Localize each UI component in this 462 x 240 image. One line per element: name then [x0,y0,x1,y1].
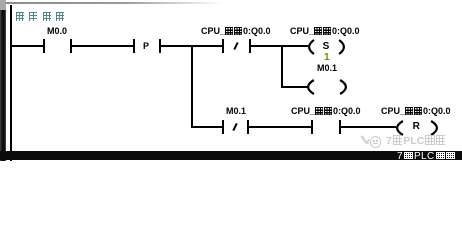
watermark: circle logo with face [370,136,382,148]
watermark text 7天PLC培训 (light gray) [386,135,445,147]
node B branch down [281,45,283,88]
watermark: check stroke [361,135,368,144]
coil S label CPU_输出0:Q0.0 [290,27,360,35]
left dark edge band [0,10,6,161]
node A branch down [191,45,193,128]
comment text 输入注释 (teal CJK blobs) [16,8,64,26]
wire NC to S coil, passes node B [251,45,308,47]
bottom black banner [0,151,462,160]
contact M0.1 (NC) [226,107,246,115]
contact P (positive edge) [133,39,135,53]
top-left gray corner block [0,0,6,10]
coil R parentheses [396,120,439,136]
contact CPU_输出0:Q0.0 (NC) [201,27,271,35]
window top border line (fading gradient) [5,2,223,4]
left power rail [10,5,12,161]
wire to R coil [341,126,396,128]
wire M0.0 to P [72,45,133,47]
banner text 7天PLC培训 (white) [397,152,455,161]
coil M0.1 on branch from node B [317,64,337,72]
wire M0.1 to CPU NO contact [249,126,311,128]
coil R label CPU_输出0:Q0.0 [381,107,451,115]
set count 1 (olive) [324,54,330,62]
contact M0.0 [47,27,67,35]
wire from node A to M0.1 NC [191,126,222,128]
wire P to NC contact, passes node A [161,45,222,47]
wire rail to M0.0 [11,45,43,47]
contact CPU_输出0:Q0.0 (NO) [291,107,361,115]
coil S parentheses [308,39,346,55]
